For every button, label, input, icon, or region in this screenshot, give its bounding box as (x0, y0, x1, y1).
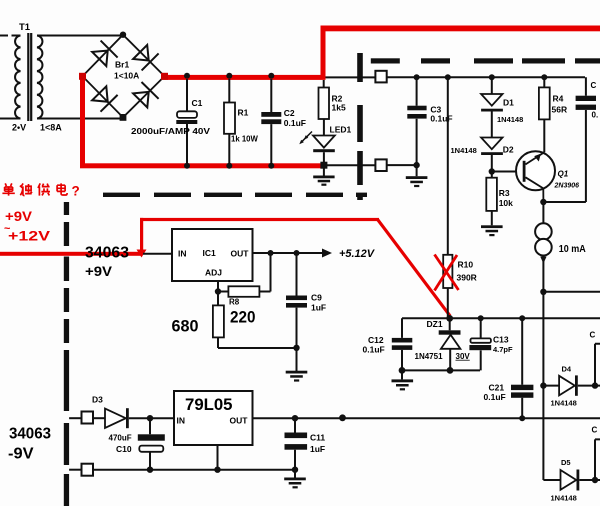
svg-text:0.: 0. (592, 111, 599, 120)
svg-text:C13: C13 (493, 335, 509, 345)
wire AC input bottom (0, 118, 21, 120)
transformer T1 secondary winding (37, 36, 42, 119)
wire ADJ stem (217, 281, 219, 292)
wire red arrow to IC IN (143, 253, 172, 255)
svg-text:Br1: Br1 (115, 60, 129, 70)
capacitor C11 (285, 415, 326, 470)
diode D2 (451, 138, 514, 175)
wire to upper connector (326, 76, 376, 78)
diode D1 (481, 74, 523, 137)
svg-text:C10: C10 (116, 444, 132, 454)
svg-text:0.1uF: 0.1uF (484, 392, 506, 402)
bridge diode top-left (92, 41, 117, 67)
svg-text:-9V: -9V (8, 446, 34, 463)
red wire to 34063 input horizontal (0, 252, 142, 256)
arrowhead current direction (540, 257, 546, 264)
node rail R10 (445, 74, 451, 80)
svg-text:LED1: LED1 (330, 125, 352, 135)
current source 10mA circles (535, 223, 552, 255)
svg-text:0.1uF: 0.1uF (430, 114, 452, 124)
wire secondary bottom to bridge (37, 118, 123, 120)
wire mid-right horizontal (543, 291, 600, 293)
svg-text:1<10A: 1<10A (114, 71, 139, 81)
svg-text:1<8A: 1<8A (40, 123, 62, 133)
capacitor C2 (261, 73, 306, 169)
node rail stray (339, 414, 346, 421)
regulator 79L05 box (174, 391, 253, 445)
svg-text:D4: D4 (562, 364, 572, 373)
wire DZ1 bottom rail (402, 369, 480, 371)
ground under C12 (392, 370, 414, 390)
node LED1 ground junction (320, 162, 327, 169)
capacitor C right top (543, 77, 598, 202)
svg-text:1uF: 1uF (311, 303, 326, 313)
wire red DC minus vertical (80, 74, 85, 166)
svg-text:2000uF/AMP 40V: 2000uF/AMP 40V (131, 127, 211, 136)
wire top rail right section (387, 76, 585, 78)
svg-text:470uF: 470uF (109, 433, 132, 442)
svg-text:30V: 30V (456, 352, 471, 361)
svg-text:C: C (592, 425, 598, 434)
svg-text:R3: R3 (499, 188, 510, 198)
wire 79L05 ground stem (217, 445, 219, 470)
svg-text:34063: 34063 (85, 245, 129, 262)
svg-text:ADJ: ADJ (205, 268, 222, 278)
svg-text:D1: D1 (503, 98, 514, 108)
wire LED ground to lower connector (327, 164, 375, 166)
ground under C3 (406, 165, 428, 187)
wire secondary top to bridge (37, 35, 123, 37)
capacitor C9 (286, 253, 326, 371)
svg-text:?: ? (72, 184, 80, 199)
svg-text:1N4148: 1N4148 (551, 398, 577, 407)
svg-text:C: C (590, 330, 596, 339)
bridge rectifier Br1 diamond (83, 35, 165, 118)
svg-text:R1: R1 (238, 108, 249, 118)
node ADJ junction (215, 288, 221, 294)
node C12 bottom (399, 367, 406, 374)
node DZ1 top junction (446, 315, 453, 322)
connector square lower left (69, 464, 93, 476)
resistor R3 (486, 172, 513, 226)
dashed boundary horizontal top (371, 58, 600, 63)
transformer T1 core (28, 33, 31, 121)
svg-text:2N3906: 2N3906 (554, 183, 580, 190)
resistor R4 (539, 74, 567, 152)
wire red top rail to edge (321, 26, 600, 32)
red wire horizontal upper (140, 218, 379, 221)
svg-text:1k 10W: 1k 10W (231, 135, 259, 144)
svg-text:C1: C1 (192, 98, 203, 108)
red note text (2, 183, 67, 195)
resistor R8 horizontal (218, 253, 271, 307)
dashed boundary mid vertical (357, 53, 363, 200)
wire base to Q1 (492, 171, 523, 173)
svg-text:OUT: OUT (231, 249, 250, 259)
svg-text:1N4148: 1N4148 (551, 493, 577, 502)
svg-text:C: C (591, 81, 597, 90)
connector square upper right (375, 71, 386, 83)
red wire riser at IC input (140, 218, 143, 254)
transistor Q1 (516, 151, 579, 202)
wire IC1 OUT (253, 252, 323, 254)
node bridge top (120, 32, 126, 38)
svg-text:1N4148: 1N4148 (451, 146, 477, 155)
capacitor C1 (176, 73, 202, 169)
diode D5 (543, 425, 600, 502)
node collector junction (540, 199, 546, 205)
svg-text:10 mA: 10 mA (559, 244, 586, 255)
svg-text:D5: D5 (561, 458, 571, 467)
diode D4 (540, 330, 600, 407)
svg-text:C9: C9 (311, 293, 322, 303)
svg-text:OUT: OUT (230, 416, 249, 426)
svg-text:1k5: 1k5 (332, 103, 346, 113)
svg-text:+9V: +9V (85, 264, 112, 279)
svg-text:+12V: +12V (8, 228, 51, 244)
svg-text:IN: IN (177, 416, 186, 426)
svg-text:+5.12V: +5.12V (339, 248, 376, 260)
svg-text:79L05: 79L05 (185, 395, 233, 414)
capacitor C21 (484, 315, 534, 421)
wire DZ1 top rail (402, 317, 600, 319)
svg-text:1uF: 1uF (310, 444, 325, 454)
node OUT junction 1 (268, 250, 274, 256)
svg-text:DZ1: DZ1 (427, 319, 443, 329)
wire lower return (93, 469, 295, 471)
resistor R2 (319, 80, 346, 119)
svg-text:+9V: +9V (5, 208, 33, 224)
svg-text:C2: C2 (284, 108, 295, 118)
svg-text:1N4148: 1N4148 (497, 115, 523, 124)
svg-text:1N4751: 1N4751 (415, 352, 444, 361)
wire R10 branch vertical (447, 77, 449, 255)
svg-text:0.1uF: 0.1uF (363, 344, 385, 354)
resistor R10 (443, 255, 477, 319)
svg-text:34063: 34063 (9, 426, 51, 443)
svg-text:Q1: Q1 (558, 170, 569, 179)
wire red DC plus rail (163, 75, 326, 80)
svg-text:C11: C11 (310, 433, 325, 443)
ground under LED1 (313, 167, 334, 186)
capacitor C13 (469, 315, 513, 370)
zener diode DZ1 (415, 318, 471, 370)
connector square lower right (375, 159, 386, 171)
svg-text:2•V: 2•V (12, 123, 26, 133)
red X over R10 (435, 255, 459, 291)
svg-text:0.1uF: 0.1uF (284, 118, 306, 128)
wire red DC minus horizontal (80, 163, 323, 168)
bridge diode bottom-left (92, 86, 118, 111)
svg-text:IC1: IC1 (203, 248, 217, 258)
red arrowhead at IC input (137, 250, 147, 258)
ground under C11 (284, 467, 306, 489)
node mid-right junction (540, 289, 546, 295)
wire 10mA branch vertical (542, 202, 544, 480)
svg-text:390R: 390R (457, 273, 477, 283)
node 79L05 ground (214, 467, 220, 473)
capacitor C3 (407, 74, 452, 168)
svg-text:56R: 56R (552, 105, 568, 115)
capacitor C12 (363, 318, 413, 370)
resistor R1 (224, 73, 259, 169)
svg-text:4.7pF: 4.7pF (493, 345, 513, 354)
arrowhead +5.12V (322, 249, 332, 258)
node OUT junction 2 (294, 250, 300, 256)
node bridge left red (79, 73, 86, 80)
ground under R3 (481, 225, 503, 236)
dashed boundary left vertical (64, 202, 69, 506)
LED LED1 (313, 119, 352, 165)
diode D3 (92, 395, 174, 429)
bridge diode bottom-right (133, 82, 159, 107)
svg-text:IN: IN (178, 249, 187, 259)
capacitor C10 (109, 418, 165, 473)
resistor 680 vertical (213, 292, 297, 349)
wire red vertical riser (321, 26, 326, 79)
red diagonal annotation wire (378, 220, 450, 316)
svg-text:220: 220 (230, 308, 256, 327)
ground under C9 (286, 371, 308, 382)
transformer T1 primary winding (15, 36, 20, 119)
svg-text:680: 680 (172, 317, 199, 336)
wire output rail long (253, 417, 600, 419)
svg-text:D3: D3 (92, 395, 103, 405)
svg-text:R8: R8 (229, 298, 240, 307)
wire AC input top (0, 35, 21, 37)
svg-text:T1: T1 (19, 22, 31, 33)
svg-text:R10: R10 (458, 260, 474, 270)
svg-text:10k: 10k (499, 198, 513, 208)
connector square D3 input (69, 412, 93, 424)
dashed boundary horizontal mid (103, 193, 367, 197)
bridge diode top-right (133, 45, 159, 71)
op-amp IC1 34063 box (172, 229, 253, 281)
node DZ1 bottom (447, 367, 454, 374)
node bridge right red (161, 73, 168, 80)
svg-text:R4: R4 (553, 94, 564, 104)
node bridge bottom (120, 114, 127, 121)
LED1 emission arrows (302, 132, 312, 142)
wire lower connector to C3 (387, 164, 417, 166)
svg-text:D2: D2 (503, 145, 514, 155)
